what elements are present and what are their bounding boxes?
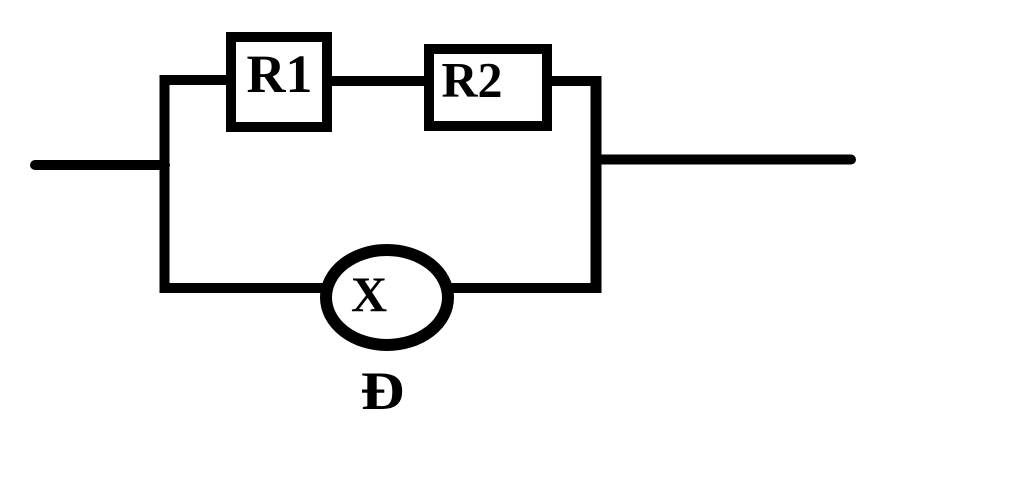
wire right vertical <box>591 76 602 293</box>
wire left terminal <box>35 160 165 170</box>
svg-text:X: X <box>351 266 387 322</box>
wire bottom from lamp to right vertical <box>450 283 601 293</box>
resistor R1 <box>231 37 327 127</box>
svg-text:Đ: Đ <box>361 361 405 421</box>
wire R2 to right vertical <box>548 76 596 86</box>
wire between R1 and R2 <box>328 76 428 86</box>
wire left branch (top lead, left vertical, bottom lead to lamp) <box>165 80 327 288</box>
svg-text:R1: R1 <box>247 44 313 104</box>
resistor R2 <box>429 49 547 126</box>
svg-text:R2: R2 <box>441 52 502 108</box>
wire right terminal <box>598 155 851 165</box>
lamp X <box>326 250 448 345</box>
